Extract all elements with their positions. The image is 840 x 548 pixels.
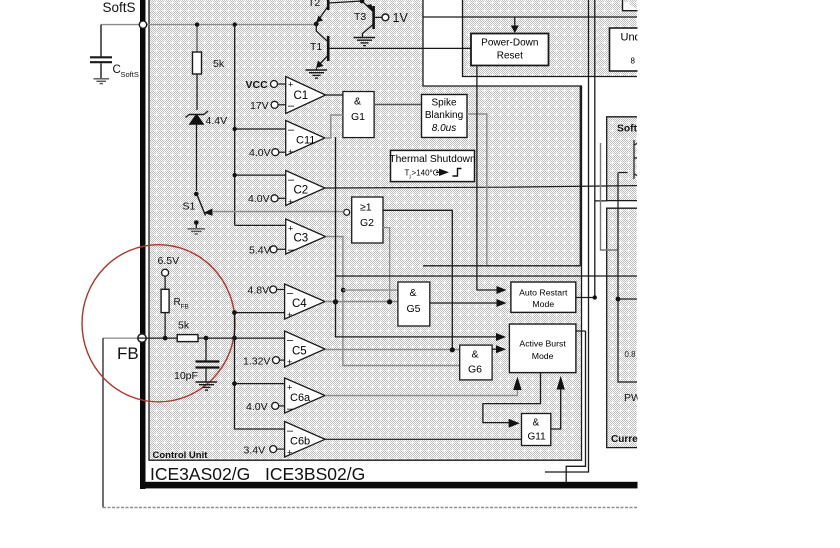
svg-text:T1: T1 bbox=[310, 41, 322, 53]
svg-text:&: & bbox=[472, 349, 479, 361]
pin 4.0V C6a bbox=[272, 402, 279, 409]
svg-text:&: & bbox=[533, 418, 540, 429]
arrow G11 into ABM bottom bbox=[557, 376, 565, 390]
wire C3 net to G5 input bbox=[343, 289, 398, 291]
comparator C2 bbox=[286, 171, 325, 208]
wire ABM loop to G11 bbox=[483, 373, 541, 423]
resistor RFB bbox=[161, 289, 189, 338]
wire G2 out 2 bbox=[383, 228, 390, 302]
svg-text:&: & bbox=[410, 287, 417, 299]
pin SoftS bbox=[139, 21, 146, 28]
svg-text:G1: G1 bbox=[351, 111, 365, 123]
svg-text:5k: 5k bbox=[178, 320, 190, 332]
resistor 5k vertical bbox=[193, 25, 225, 110]
svg-text:+: + bbox=[288, 80, 293, 90]
svg-text:C1: C1 bbox=[294, 90, 309, 102]
node C11 minus feed bbox=[233, 127, 237, 131]
wire long vertical 1 bbox=[423, 86, 580, 266]
pin 1.32V bbox=[273, 357, 280, 364]
svg-text:–: – bbox=[288, 244, 295, 256]
svg-text:VCC: VCC bbox=[246, 79, 269, 91]
crop masks (scan edges) bbox=[638, 0, 840, 548]
svg-text:Active Burst: Active Burst bbox=[519, 338, 566, 348]
svg-text:1.32V: 1.32V bbox=[243, 356, 270, 368]
wire FB net bbox=[138, 337, 235, 339]
svg-text:C6a: C6a bbox=[290, 392, 311, 404]
svg-text:3.4V: 3.4V bbox=[244, 445, 266, 457]
wire G1 out to spike blanking bbox=[374, 104, 421, 106]
svg-text:Mode: Mode bbox=[532, 299, 554, 309]
part numbers ICE3AS02/G ICE3BS02/G bbox=[150, 464, 365, 484]
svg-text:G6: G6 bbox=[468, 364, 482, 376]
comparator C11 bbox=[286, 121, 325, 158]
ground S1 bbox=[188, 229, 206, 234]
wire C3 out bbox=[326, 237, 460, 366]
ground T3 bbox=[354, 38, 376, 46]
capacitor 10pF bbox=[174, 338, 219, 382]
svg-text:+: + bbox=[288, 147, 293, 157]
svg-text:FB: FB bbox=[181, 304, 189, 311]
svg-text:Thermal Shutdown: Thermal Shutdown bbox=[389, 154, 476, 165]
ground 10pF bbox=[196, 382, 218, 390]
svg-text:5k: 5k bbox=[213, 58, 225, 70]
svg-text:G5: G5 bbox=[407, 303, 421, 315]
wire T1 base to Power-Down Reset bbox=[328, 47, 471, 49]
svg-text:8.0us: 8.0us bbox=[432, 123, 456, 134]
box spike blanking bbox=[422, 95, 468, 138]
svg-text:4.0V: 4.0V bbox=[246, 401, 268, 413]
svg-text:Spike: Spike bbox=[431, 98, 456, 109]
wire C6a plus bbox=[235, 383, 285, 385]
svg-text:+: + bbox=[287, 448, 292, 458]
pin 5.4V bbox=[270, 246, 277, 253]
wire long vertical 2 bbox=[545, 0, 589, 472]
svg-text:5.4V: 5.4V bbox=[249, 245, 271, 257]
wire C5 minus bbox=[235, 337, 285, 339]
arrow C6a into ABM bottom bbox=[513, 377, 521, 391]
node C5 net bbox=[450, 347, 455, 352]
transistor T2 bbox=[308, 0, 362, 23]
wire C11 out to G1 bbox=[325, 115, 343, 138]
svg-text:4.0V: 4.0V bbox=[248, 193, 270, 205]
svg-text:+: + bbox=[287, 310, 292, 320]
wire C4 out bbox=[325, 301, 398, 303]
svg-text:S1: S1 bbox=[183, 201, 196, 213]
gray block: current mode PWM bbox=[607, 208, 637, 447]
gate G2 bbox=[344, 197, 383, 243]
gate G5 bbox=[398, 282, 430, 326]
switch S1 bbox=[183, 192, 213, 228]
wire G5 out to auto restart bbox=[430, 302, 503, 304]
IC package thick border bottom bbox=[140, 482, 640, 489]
ground C_SoftS bbox=[94, 79, 110, 84]
svg-text:1V: 1V bbox=[393, 11, 409, 25]
svg-text:+: + bbox=[288, 197, 293, 207]
wire comparator threshold vertical bbox=[234, 25, 236, 226]
borders of gray blocks bbox=[149, 0, 637, 460]
node C4 out / vertical bbox=[333, 299, 338, 304]
box active burst mode bbox=[509, 324, 576, 373]
label C_SoftS bbox=[113, 64, 139, 79]
node comparator feed junction bbox=[233, 22, 237, 26]
node T2/T3 collector top bbox=[360, 0, 365, 3]
node C6a plus feed bbox=[232, 381, 237, 386]
wire C3 plus bbox=[235, 224, 286, 226]
comparator C3 bbox=[286, 219, 326, 256]
pin 4.8V bbox=[270, 286, 277, 293]
svg-text:Blanking: Blanking bbox=[425, 110, 463, 121]
comparator C6a bbox=[285, 378, 325, 415]
red annotation ellipse bbox=[82, 245, 235, 402]
svg-text:T2: T2 bbox=[308, 0, 320, 9]
svg-text:8: 8 bbox=[631, 57, 636, 66]
box undervoltage lockout (cut) bbox=[610, 28, 641, 71]
svg-text:4.4V: 4.4V bbox=[206, 115, 228, 127]
supply 6.5V bbox=[158, 255, 180, 289]
wire T3 base net to right bbox=[423, 16, 637, 18]
comparator C1 bbox=[286, 77, 326, 114]
box thermal shutdown bbox=[389, 150, 476, 181]
comparator C4 bbox=[285, 284, 325, 320]
wire PDR bottom to auto restart bbox=[477, 66, 503, 291]
svg-text:FB: FB bbox=[117, 344, 139, 363]
wire C6a out to ABM bottom bbox=[325, 388, 517, 396]
outer FB wire bottom bbox=[103, 338, 637, 507]
svg-text:ICE3AS02/G: ICE3AS02/G bbox=[150, 464, 250, 484]
svg-text:–: – bbox=[288, 124, 295, 136]
svg-text:ICE3BS02/G: ICE3BS02/G bbox=[265, 464, 365, 484]
wire C2 minus bbox=[235, 174, 286, 176]
svg-text:C4: C4 bbox=[292, 298, 307, 310]
node auto restart out bbox=[593, 295, 597, 299]
wire spike blanking out bbox=[467, 114, 487, 266]
svg-text:–: – bbox=[287, 403, 294, 415]
node C3 net to G5 bbox=[341, 288, 346, 293]
svg-text:SoftS: SoftS bbox=[103, 0, 136, 15]
svg-text:Control Unit: Control Unit bbox=[153, 450, 209, 461]
arrow into ABM input2 bbox=[496, 345, 506, 353]
pin 1V bbox=[374, 11, 409, 25]
svg-text:≥1: ≥1 bbox=[360, 202, 372, 214]
svg-text:j: j bbox=[409, 174, 411, 180]
svg-text:+: + bbox=[288, 224, 293, 234]
svg-text:C11: C11 bbox=[296, 135, 315, 147]
resistor 5k horizontal bbox=[177, 320, 198, 342]
svg-text:G2: G2 bbox=[360, 217, 374, 229]
wire G11 out to ABM bbox=[551, 387, 561, 429]
wire SoftS net horizontal bbox=[101, 24, 316, 26]
pin VCC bbox=[271, 81, 278, 88]
svg-text:&: & bbox=[354, 96, 361, 108]
svg-text:4.0V: 4.0V bbox=[249, 147, 271, 159]
svg-text:Reset: Reset bbox=[497, 51, 523, 62]
svg-text:0.8: 0.8 bbox=[625, 350, 637, 359]
soft start cut comparator bbox=[618, 140, 637, 382]
transistor T1 bbox=[310, 24, 328, 70]
svg-text:10pF: 10pF bbox=[174, 370, 198, 382]
transistor T3 bbox=[354, 1, 374, 37]
wire ABM out right bbox=[566, 331, 585, 483]
node C2 minus feed bbox=[233, 173, 237, 177]
svg-text:>140°C: >140°C bbox=[412, 169, 439, 178]
box power-down reset bbox=[471, 34, 549, 66]
node FB comparator junction bbox=[232, 336, 237, 341]
wire burst vertical to ABM bbox=[336, 137, 503, 337]
wire FB comparator vertical bbox=[235, 313, 285, 429]
comparator C5 bbox=[285, 331, 325, 367]
svg-text:6.5V: 6.5V bbox=[158, 255, 180, 267]
gray block: soft start bbox=[607, 117, 637, 201]
wire arrow into Power-Down Reset top bbox=[511, 17, 519, 33]
arrow into ARM input2 bbox=[497, 299, 507, 307]
wire C2 out long bbox=[325, 186, 637, 188]
arrow into G11 input1 bbox=[509, 419, 520, 428]
wire C6b out to G11 bbox=[325, 438, 522, 440]
wire C4 plus bbox=[235, 312, 285, 314]
capacitor C_SoftS bbox=[90, 25, 112, 78]
zener diode 4.4V bbox=[186, 111, 228, 191]
wire C1 out to G1 bbox=[326, 94, 343, 96]
box auto restart mode bbox=[511, 282, 576, 312]
arrow into ARM input1 bbox=[497, 286, 507, 294]
pin 17V bbox=[271, 101, 278, 108]
IC package thick border left bbox=[140, 0, 146, 489]
gray block: control unit + central area fill bbox=[149, 0, 582, 460]
svg-text:T3: T3 bbox=[354, 11, 366, 23]
svg-text:C6b: C6b bbox=[290, 436, 310, 448]
svg-text:Power-Down: Power-Down bbox=[481, 38, 538, 49]
wire G6 out to ABM bbox=[492, 348, 501, 350]
node soft block junction bbox=[616, 297, 621, 302]
svg-text:C2: C2 bbox=[294, 185, 309, 197]
box top right cut bbox=[623, 0, 641, 11]
wire C11 minus bbox=[235, 128, 286, 130]
wire C5 out bbox=[325, 349, 460, 351]
node C4 plus feed bbox=[232, 310, 237, 315]
comparator C6b bbox=[285, 422, 325, 458]
ground T1 bbox=[306, 70, 328, 78]
node T2 emitter / SoftS bbox=[314, 22, 319, 27]
svg-text:G11: G11 bbox=[528, 432, 547, 443]
pin FB bbox=[138, 334, 146, 342]
gate G11 bbox=[522, 414, 551, 446]
gate G1 bbox=[343, 92, 374, 138]
svg-text:4.8V: 4.8V bbox=[248, 285, 270, 297]
node 10pF junction bbox=[204, 336, 209, 341]
gray block: top band (power management) bbox=[463, 0, 638, 77]
svg-text:Mode: Mode bbox=[532, 351, 554, 361]
pin 4.0V C2 bbox=[271, 195, 278, 202]
node RFB/FB bbox=[163, 336, 168, 341]
svg-text:17V: 17V bbox=[250, 100, 269, 112]
svg-text:C5: C5 bbox=[292, 346, 307, 358]
wire long mid horizontal bbox=[336, 275, 638, 277]
gate G6 bbox=[460, 345, 492, 380]
wire long vertical 4 to auto restart out bbox=[576, 0, 595, 298]
wire gray channel bbox=[601, 143, 619, 250]
node SoftS divider junction bbox=[195, 22, 199, 26]
arrow into ABM input1 bbox=[496, 333, 506, 341]
svg-text:SoftS: SoftS bbox=[121, 70, 139, 79]
wire S1 to G2 input bbox=[212, 211, 344, 213]
pin 4.0V C11 bbox=[272, 149, 279, 156]
wire G2 out 1 bbox=[383, 210, 452, 349]
svg-text:+: + bbox=[287, 383, 292, 393]
node G2 out2 joins C4 net bbox=[387, 299, 392, 304]
svg-text:C3: C3 bbox=[294, 233, 309, 245]
svg-text:+: + bbox=[287, 357, 292, 367]
pin 3.4V bbox=[270, 446, 277, 453]
svg-text:Auto Restart: Auto Restart bbox=[519, 287, 568, 297]
